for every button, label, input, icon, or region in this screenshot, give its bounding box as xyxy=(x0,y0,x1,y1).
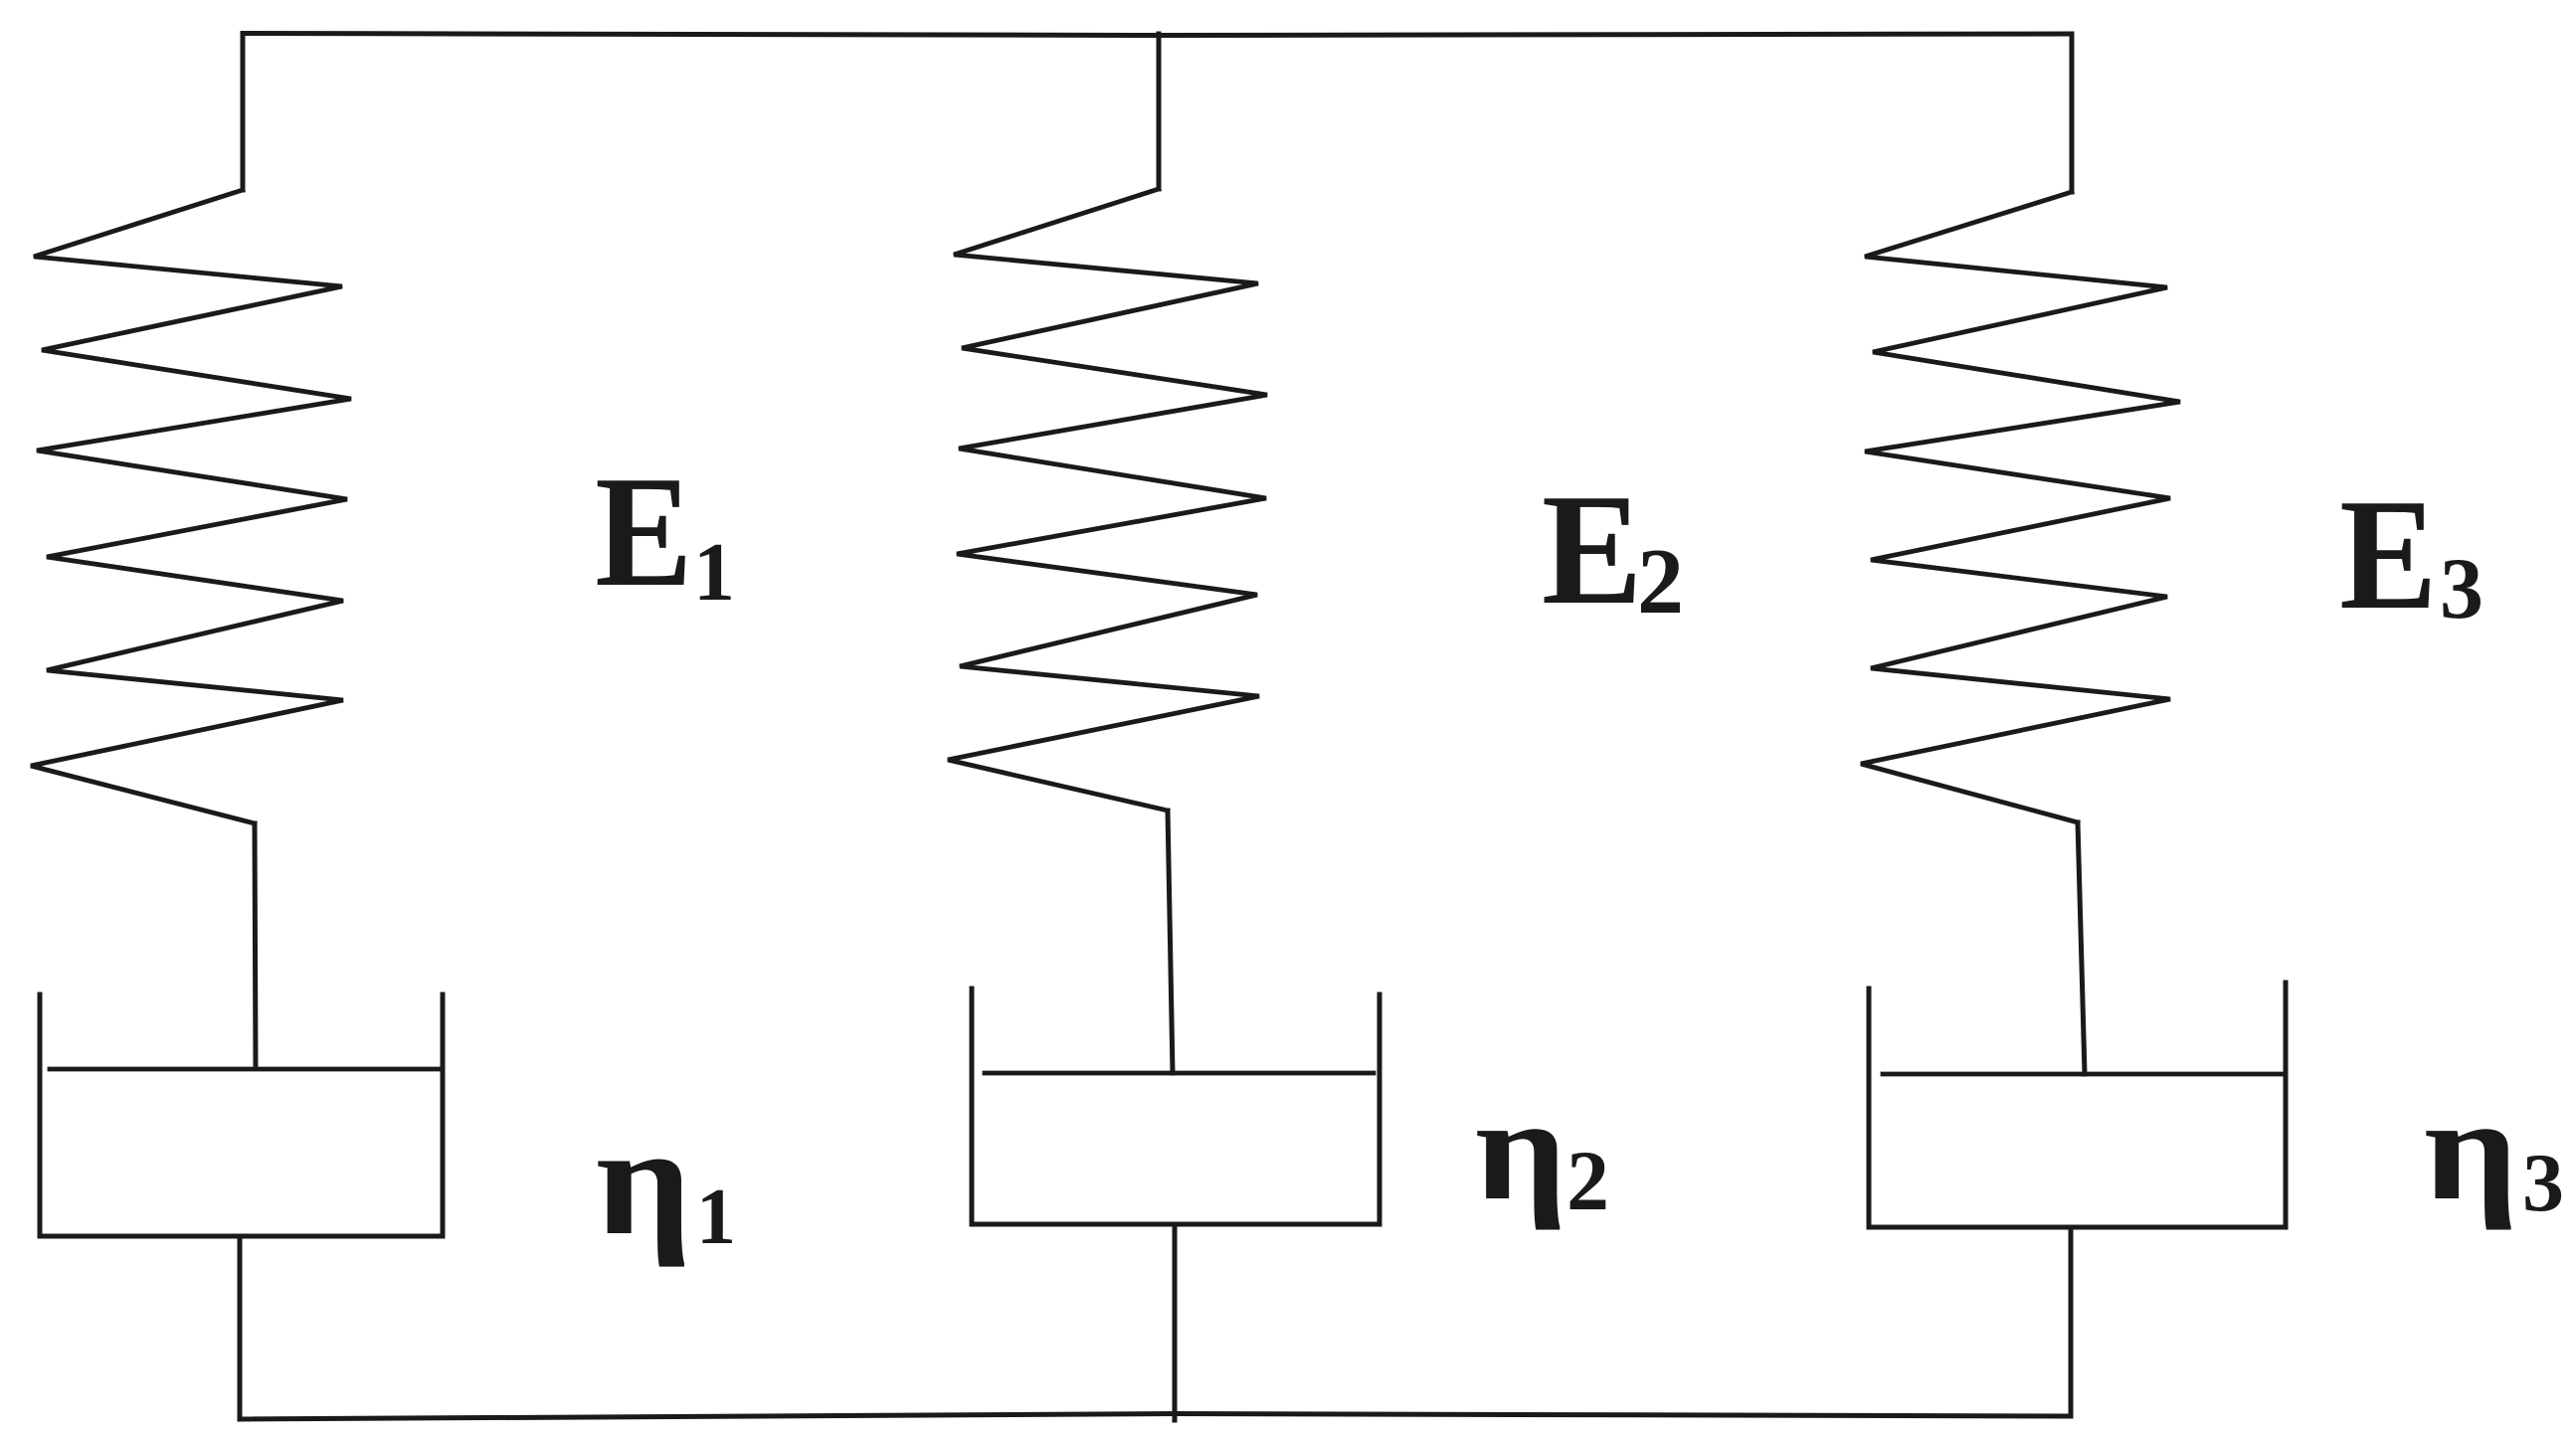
svg-text:η: η xyxy=(2424,1068,2518,1231)
wire dashpot-to-bottom branch 3 xyxy=(2069,1227,2074,1416)
svg-text:E: E xyxy=(1542,460,1642,636)
label E2 xyxy=(1542,460,1642,636)
wire top bus xyxy=(243,34,2072,36)
svg-text:2: 2 xyxy=(1637,530,1684,633)
wire spring-to-dashpot branch 3 xyxy=(2078,822,2085,1074)
wire spring-to-dashpot branch 1 xyxy=(255,823,256,1068)
label eta3 xyxy=(2424,1068,2518,1231)
wire top lead branch 2 xyxy=(1157,34,1162,189)
svg-text:η: η xyxy=(596,1094,691,1267)
label eta1 xyxy=(596,1094,691,1267)
svg-text:2: 2 xyxy=(1566,1133,1609,1228)
label E3 xyxy=(2339,466,2437,642)
dashpot eta3 cylinder xyxy=(1869,983,2286,1227)
wire dashpot-to-bottom branch 1 xyxy=(238,1236,243,1419)
wire top lead branch 3 xyxy=(2070,34,2075,192)
wire spring-to-dashpot branch 2 xyxy=(1168,811,1173,1073)
label eta2 xyxy=(1475,1067,1566,1231)
wire dashpot-to-bottom branch 2 xyxy=(1173,1224,1178,1420)
svg-text:η: η xyxy=(1475,1067,1566,1231)
svg-text:1: 1 xyxy=(696,1174,736,1261)
dashpot eta1 piston plate xyxy=(50,1067,441,1072)
dashpot eta3 piston plate xyxy=(1883,1072,2286,1077)
label E1 xyxy=(595,444,692,620)
spring E3 xyxy=(1861,192,2180,822)
dashpot eta1 cylinder xyxy=(40,995,443,1236)
spring E1 xyxy=(31,190,351,823)
spring E2 xyxy=(948,189,1267,811)
dashpot eta2 cylinder xyxy=(972,989,1380,1224)
dashpot eta2 piston plate xyxy=(985,1071,1374,1076)
svg-text:1: 1 xyxy=(693,526,735,619)
svg-text:3: 3 xyxy=(2522,1137,2564,1229)
wire top lead branch 1 xyxy=(241,34,246,190)
svg-text:E: E xyxy=(2339,466,2437,642)
wire bottom bus xyxy=(240,1414,2071,1420)
svg-text:E: E xyxy=(595,444,692,620)
svg-text:3: 3 xyxy=(2440,541,2484,637)
